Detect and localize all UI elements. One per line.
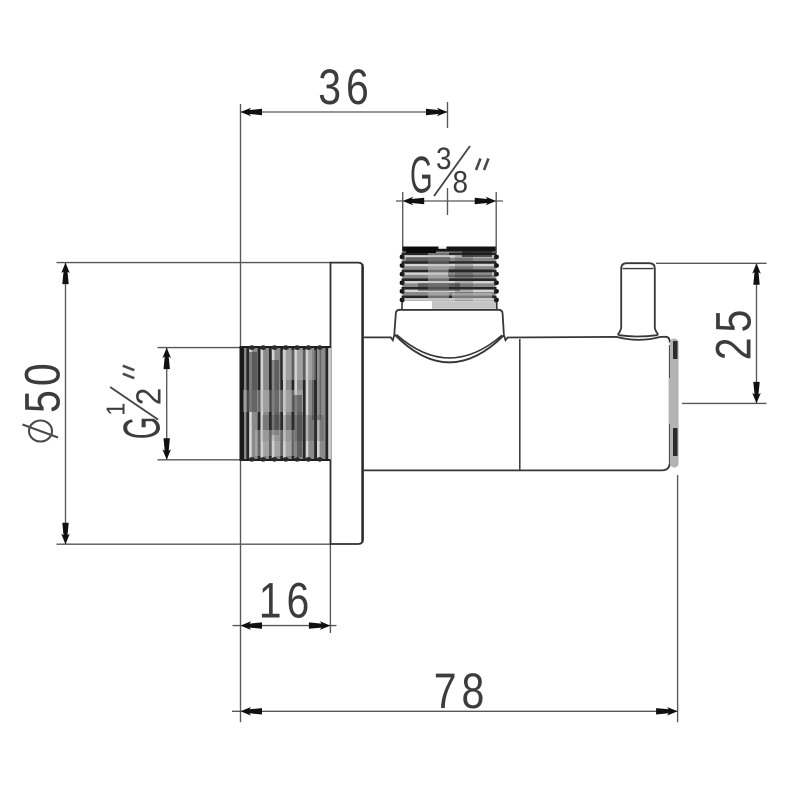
dim G3/8 line bbox=[396, 200, 503, 202]
dim 16 arrows bbox=[241, 621, 263, 630]
dim phi50 extension top bbox=[57, 262, 331, 264]
dim G1/2 extension top bbox=[158, 347, 240, 349]
crest scallops bbox=[401, 254, 498, 302]
dim G1/2 extension bottom bbox=[158, 459, 240, 461]
svg-text:25: 25 bbox=[706, 305, 762, 360]
dim 25 extension top bbox=[656, 262, 767, 264]
dim 16 extension right (below plate) bbox=[329, 544, 331, 633]
stem chamfer line bbox=[623, 268, 654, 270]
dim 36 line bbox=[241, 111, 448, 113]
irregular tone patches bbox=[428, 252, 449, 301]
svg-text:36: 36 bbox=[318, 59, 373, 115]
dim G1/2 arrows bbox=[162, 348, 171, 370]
saddle (intersection curve of ports) bbox=[394, 334, 504, 362]
svg-text:16: 16 bbox=[259, 573, 314, 629]
body right edge bbox=[669, 345, 671, 462]
dim 78 arrows bbox=[241, 707, 263, 716]
wall plate right edge accent bbox=[361, 264, 363, 543]
dim 78 extension right bbox=[677, 475, 679, 722]
body bottom rounded corner and bottom edge bbox=[363, 462, 670, 470]
shoulder (nut under top thread) bbox=[394, 310, 504, 335]
svg-text:50: 50 bbox=[15, 359, 71, 413]
svg-text:8: 8 bbox=[453, 165, 469, 200]
phi symbol of diameter label (rotated frame) bbox=[23, 421, 59, 442]
collar between thread and shoulder bbox=[402, 300, 497, 310]
dim 36 extension left (long, shared with 16/78) bbox=[240, 104, 242, 722]
dim 25 extension bottom bbox=[682, 402, 767, 404]
body top edge right of shoulder to rounded corner, with bulge under stem bbox=[504, 335, 670, 343]
joint line between body halves bbox=[519, 339, 521, 470]
dim G3/8 arrows bbox=[403, 197, 425, 206]
dim phi50 extension bottom bbox=[57, 543, 331, 545]
body (horizontal cylinder) bbox=[363, 335, 670, 471]
svg-text:1: 1 bbox=[100, 403, 130, 416]
svg-text:3: 3 bbox=[436, 141, 452, 176]
dim 16 line bbox=[233, 625, 337, 627]
svg-text:2: 2 bbox=[129, 388, 168, 406]
dim G1/2 line bbox=[166, 348, 168, 460]
dim 25 line bbox=[756, 263, 758, 403]
dim 25 arrows bbox=[752, 263, 761, 285]
crest scallops top/bottom bbox=[249, 345, 323, 461]
wall plate bbox=[331, 263, 364, 544]
dim G3/8 extension right bbox=[495, 192, 497, 253]
handle stem bbox=[618, 263, 658, 336]
dim phi50 line bbox=[65, 263, 67, 545]
dim G3/8 extension left bbox=[402, 192, 404, 252]
svg-text:G: G bbox=[410, 147, 433, 205]
outlet rounded edge (gray band at right) bbox=[669, 339, 679, 468]
svg-text:G: G bbox=[113, 417, 171, 440]
dim 78 line bbox=[232, 710, 678, 712]
svg-text:78: 78 bbox=[434, 663, 489, 719]
dim 36 extension right bbox=[447, 102, 449, 128]
body top edge left of shoulder, with V notch bbox=[363, 335, 394, 341]
dim 36 arrows bbox=[241, 108, 263, 117]
dim phi50 arrows bbox=[61, 263, 70, 285]
